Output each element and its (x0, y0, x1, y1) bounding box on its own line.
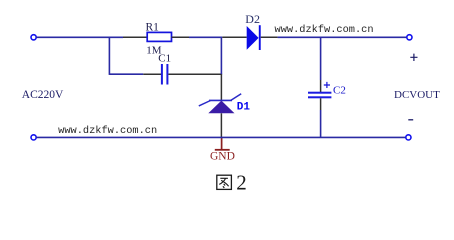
wire top rail right segment (278, 36, 407, 38)
capacitor C1 right pin (168, 73, 222, 75)
capacitor C1 left pin (143, 73, 161, 75)
svg-text:www.dzkfw.com.cn: www.dzkfw.com.cn (58, 125, 157, 137)
capacitor C2 top plate (308, 92, 331, 94)
svg-text:DCVOUT: DCVOUT (394, 89, 440, 101)
svg-text:C1: C1 (158, 53, 171, 65)
label minus output (408, 119, 413, 121)
caption figure glyph 图 (217, 175, 232, 189)
wire top rail left segment (36, 36, 123, 38)
wire D1 column upper (220, 37, 222, 74)
terminal bottom-right (406, 135, 411, 140)
capacitor C1 left plate (161, 64, 163, 85)
svg-text:www.dzkfw.com.cn: www.dzkfw.com.cn (275, 24, 374, 36)
capacitor C2 plus sign (324, 82, 330, 88)
zener D1 cathode bar (209, 99, 232, 101)
diode D2 right pin (261, 36, 278, 38)
svg-text:D1: D1 (237, 101, 251, 113)
wire C2 column lower (320, 110, 322, 137)
diode D2 cathode bar (259, 25, 261, 50)
ground stub (221, 138, 223, 150)
svg-text:2: 2 (236, 171, 247, 195)
wire bottom rail (36, 136, 405, 138)
zener D1 bottom pin (220, 113, 222, 137)
zener D1 bar right bend (231, 94, 242, 101)
capacitor C2 top pin (320, 80, 322, 92)
zener D1 triangle (208, 101, 234, 114)
svg-text:GND: GND (210, 151, 235, 163)
resistor R1 right pin (172, 36, 190, 38)
svg-text:C2: C2 (333, 85, 346, 97)
diode D2 triangle (247, 26, 259, 50)
zener D1 bar left bend (199, 101, 211, 106)
resistor R1 body (147, 32, 171, 41)
terminal top-left (31, 35, 36, 40)
resistor R1 left pin (123, 36, 147, 38)
diode D2 left pin (222, 36, 247, 38)
capacitor C1 right plate (166, 64, 168, 85)
svg-text:AC220V: AC220V (22, 89, 64, 101)
wire C1 row left (109, 73, 143, 75)
zener D1 top pin (220, 74, 222, 101)
terminal top-right (407, 35, 412, 40)
svg-text:R1: R1 (146, 21, 160, 33)
svg-text:D2: D2 (245, 12, 260, 26)
capacitor C2 bottom plate (308, 96, 331, 98)
ground bar (215, 149, 230, 151)
label plus output (410, 54, 417, 61)
capacitor C2 bottom pin (320, 98, 322, 110)
wire top rail middle segment (189, 36, 222, 38)
wire junction column x=109 (108, 37, 110, 75)
wire C2 column upper (320, 37, 322, 80)
terminal bottom-left (31, 135, 36, 140)
